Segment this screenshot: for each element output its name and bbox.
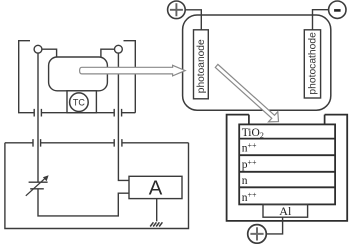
chamber top wall middle segment — [41, 142, 115, 144]
electrode terminal circle right — [115, 45, 123, 53]
furnace bottom wall right segment — [122, 112, 136, 114]
thermocouple circle TC — [70, 93, 89, 112]
chamber enclosure box — [5, 143, 189, 229]
plus sign bottom terminal — [250, 227, 263, 240]
light beam diagonal arrow — [215, 64, 278, 122]
wire left terminal to sample — [42, 49, 57, 57]
chamber top wall right segment — [122, 142, 189, 144]
furnace wall feedthrough bars right — [114, 109, 121, 117]
wire plus terminal to photoanode — [185, 10, 201, 30]
variable capacitor arrow — [26, 178, 45, 196]
furnace bottom wall left segment — [18, 112, 34, 114]
chamber feedthrough bars left — [33, 139, 41, 147]
layer stack outer box — [239, 124, 335, 204]
wire Al to plus terminal — [266, 217, 282, 234]
plus terminal circle top — [168, 1, 186, 19]
chamber feedthrough bars right — [114, 139, 122, 147]
svg-text:TC: TC — [73, 97, 85, 107]
minus terminal circle top — [329, 1, 346, 18]
electrode terminal circle left — [34, 45, 42, 53]
device container box with open top — [227, 115, 348, 221]
sample ampoule rounded box — [49, 57, 108, 91]
furnace wall feedthrough bars left — [34, 109, 41, 117]
furnace right bracket — [124, 41, 136, 113]
layer divider lines — [239, 139, 335, 188]
wire right terminal to sample — [101, 49, 115, 57]
plus terminal circle bottom — [248, 225, 267, 244]
wire variable capacitor bottom run — [38, 189, 129, 216]
minus sign top terminal — [334, 9, 341, 12]
wire minus terminal to photocathode — [313, 10, 329, 30]
wire left electrode down — [37, 53, 39, 182]
ammeter box A — [129, 176, 182, 198]
light beam horizontal arrow — [80, 65, 186, 76]
wire right electrode down — [118, 53, 129, 180]
photocathode electrode box — [304, 30, 320, 98]
photoanode electrode box — [194, 30, 209, 99]
cell rounded vessel — [183, 15, 331, 110]
TC holder box — [67, 91, 96, 113]
svg-text:Al: Al — [279, 204, 292, 218]
plus sign top terminal — [170, 3, 183, 16]
svg-text:photocathode: photocathode — [308, 32, 319, 95]
device container tab verticals — [249, 115, 325, 125]
chamber top wall left segment — [5, 142, 33, 144]
furnace bottom wall middle segment — [41, 112, 114, 114]
svg-text:A: A — [149, 177, 163, 199]
Al contact box — [263, 204, 308, 217]
furnace left bracket — [19, 41, 30, 113]
ground symbol — [150, 222, 162, 226]
variable capacitor plates — [29, 182, 48, 189]
svg-text:n: n — [242, 175, 248, 187]
svg-text:photoanode: photoanode — [196, 39, 207, 93]
wire ammeter to ground — [156, 199, 158, 222]
